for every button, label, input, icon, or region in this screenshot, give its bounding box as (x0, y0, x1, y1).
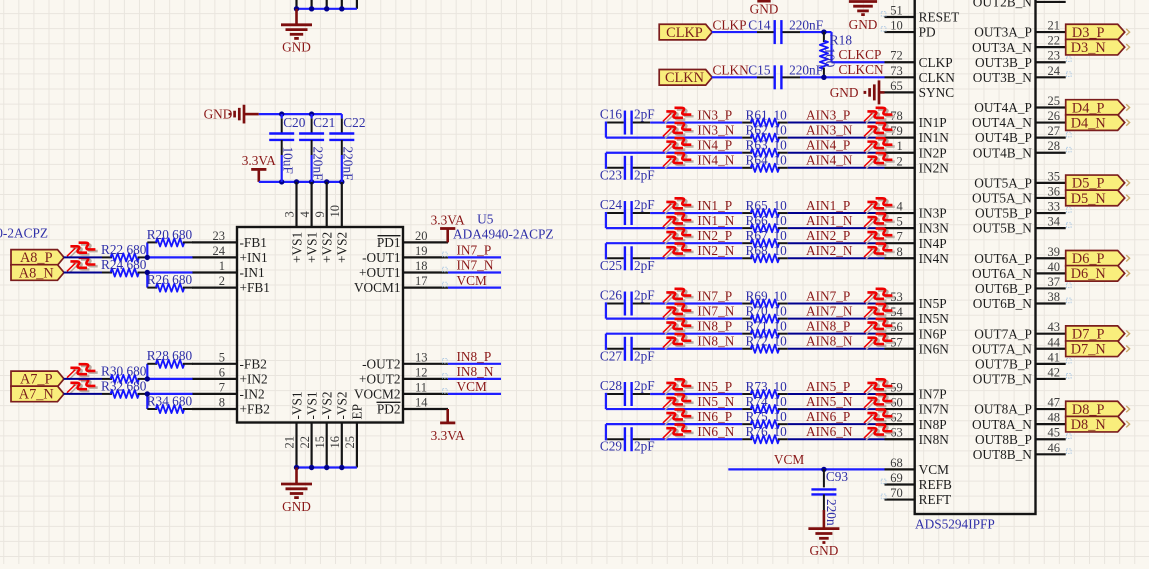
wire (146, 394, 148, 409)
svg-text:2pF: 2pF (634, 107, 655, 122)
svg-text:C25: C25 (600, 258, 623, 273)
junction (339, 179, 344, 184)
svg-text:-VS1: -VS1 (289, 391, 304, 419)
wire (448, 271, 501, 273)
svg-text:D7_N: D7_N (1071, 342, 1106, 358)
wire (788, 122, 885, 124)
svg-text:10: 10 (774, 409, 788, 424)
ADC pin 51 RESET (885, 4, 960, 25)
svg-text:AIN2_N: AIN2_N (806, 243, 853, 258)
port A7_P (11, 371, 64, 387)
ADC pin 56 IN6P (885, 320, 947, 341)
svg-text:+VS2: +VS2 (335, 232, 350, 263)
junction (145, 270, 150, 275)
svg-text:GND: GND (849, 17, 878, 32)
junction (309, 465, 314, 470)
junction (145, 255, 150, 260)
svg-text:9: 9 (313, 211, 327, 217)
ADC pin 46 OUT8B_N (973, 441, 1066, 462)
ADC U? ADS5294IPFP body (915, 0, 1036, 514)
svg-text:10: 10 (774, 122, 788, 137)
svg-text:ADA4940-2ACPZ: ADA4940-2ACPZ (453, 227, 553, 242)
port D3_P (1066, 24, 1125, 40)
wire (606, 152, 742, 154)
svg-text:27: 27 (1048, 124, 1061, 138)
junction (324, 6, 329, 11)
ADC pin 62 IN8P (885, 411, 947, 432)
junction (309, 179, 314, 184)
capacitor C25 2pF (600, 243, 655, 273)
svg-text:C22: C22 (343, 115, 365, 130)
resistor R64 10 (742, 153, 788, 172)
svg-text:C20: C20 (283, 115, 306, 130)
svg-text:R32 680: R32 680 (101, 378, 147, 393)
port D4_N (1066, 115, 1125, 131)
svg-text:10: 10 (774, 243, 788, 258)
ADC pin 22 OUT3A_N (972, 34, 1066, 55)
ADC pin 43 OUT7A_P (974, 320, 1065, 341)
ground GND (sideways) (244, 113, 259, 116)
ADC pin 65 SYNC (885, 79, 955, 100)
ADC pin 57 IN6N (885, 335, 950, 356)
U5 pin 16 -VS2 (328, 391, 350, 467)
svg-text:IN8N: IN8N (919, 432, 950, 447)
svg-text:10uF: 10uF (281, 147, 296, 174)
svg-text:IN7_N: IN7_N (457, 258, 494, 273)
svg-text:OUT4A_P: OUT4A_P (974, 100, 1032, 115)
svg-text:22: 22 (298, 436, 312, 449)
wire (297, 466, 357, 468)
svg-text:68: 68 (890, 456, 903, 470)
svg-text:AIN3_P: AIN3_P (806, 107, 850, 122)
ADC pin 78 IN1P (885, 109, 947, 130)
svg-text:R26 680: R26 680 (147, 272, 193, 287)
diff pair marker (663, 409, 694, 424)
svg-text:51: 51 (890, 4, 903, 18)
svg-text:R65: R65 (746, 198, 769, 213)
port D5_P (1066, 175, 1125, 191)
svg-text:IN2_N: IN2_N (697, 243, 734, 258)
svg-text:IN7P: IN7P (919, 387, 947, 402)
svg-text:+FB2: +FB2 (240, 402, 270, 417)
svg-text:OUT8A_P: OUT8A_P (974, 402, 1032, 417)
svg-text:40: 40 (1048, 260, 1061, 274)
svg-text:69: 69 (890, 471, 903, 485)
wire (606, 423, 742, 425)
svg-text:CLKN: CLKN (919, 70, 956, 85)
ADC pin 63 IN8N (885, 426, 950, 447)
wire (788, 212, 885, 214)
svg-text:10: 10 (774, 288, 788, 303)
svg-text:C16: C16 (600, 107, 623, 122)
diff pair marker (663, 379, 694, 394)
svg-text:10: 10 (774, 379, 788, 394)
svg-text:-VS2: -VS2 (335, 391, 350, 419)
svg-text:2pF: 2pF (634, 258, 655, 273)
svg-text:46: 46 (1048, 441, 1061, 455)
power 3.3VA (446, 229, 449, 243)
wire (146, 364, 148, 379)
svg-text:D6_P: D6_P (1072, 251, 1105, 267)
wire (650, 167, 742, 169)
diff pair marker (663, 394, 694, 409)
diff pair marker (67, 379, 98, 394)
svg-text:GND: GND (282, 499, 311, 514)
svg-text:OUT4B_N: OUT4B_N (973, 145, 1032, 160)
svg-text:C93: C93 (826, 469, 849, 484)
U5 pin 13 -OUT2 (362, 350, 448, 371)
svg-text:GND: GND (809, 543, 838, 558)
port D7_P (1066, 326, 1125, 342)
svg-text:3: 3 (283, 211, 297, 217)
svg-text:D7_P: D7_P (1072, 326, 1105, 342)
diff pair marker (864, 394, 895, 409)
diff pair marker (663, 198, 694, 213)
svg-text:41: 41 (1048, 350, 1061, 364)
svg-text:1: 1 (219, 259, 225, 273)
resistor R20 680 (147, 227, 193, 247)
svg-text:8: 8 (219, 396, 225, 410)
svg-text:R75: R75 (746, 409, 769, 424)
ground GND (295, 468, 298, 484)
svg-text:73: 73 (890, 64, 903, 78)
svg-text:C15: C15 (748, 63, 771, 78)
diff pair marker (67, 258, 98, 273)
wire (650, 121, 742, 123)
svg-text:IN6_N: IN6_N (697, 424, 734, 439)
svg-text:D5_N: D5_N (1071, 191, 1106, 207)
svg-text:OUT8A_N: OUT8A_N (972, 417, 1032, 432)
svg-text:5: 5 (219, 350, 225, 364)
svg-text:43: 43 (1048, 320, 1061, 334)
svg-text:AIN5_N: AIN5_N (806, 394, 853, 409)
svg-text:28: 28 (1048, 139, 1061, 153)
svg-text:35: 35 (1048, 169, 1061, 183)
ADC pin 26 OUT4A_N (972, 109, 1066, 130)
ADC pin 24 OUT3B_N (973, 64, 1066, 85)
svg-text:R20 680: R20 680 (147, 227, 193, 242)
svg-text:AIN2_P: AIN2_P (806, 228, 850, 243)
resistor R68 10 (742, 243, 788, 262)
wire (788, 333, 885, 335)
wire (606, 408, 742, 410)
svg-text:R73: R73 (746, 379, 769, 394)
svg-text:25: 25 (1048, 94, 1061, 108)
ADC pin 37 OUT6B_P (975, 275, 1066, 296)
svg-text:A7_N: A7_N (19, 387, 54, 403)
resistor R32 680 (101, 378, 148, 398)
svg-text:IN3N: IN3N (919, 221, 950, 236)
ADC pin 40 OUT6A_N (972, 260, 1066, 281)
diff pair marker (864, 425, 895, 440)
svg-text:-OUT2: -OUT2 (362, 356, 400, 371)
svg-text:21: 21 (283, 436, 297, 449)
svg-text:36: 36 (1048, 184, 1061, 198)
capacitor C26 2pF (600, 288, 655, 319)
wire (606, 242, 742, 244)
svg-text:IN5_P: IN5_P (697, 379, 732, 394)
ADC pin 4 IN3P (885, 200, 947, 221)
diff pair marker (864, 123, 895, 138)
ADC pin 39 OUT6A_P (974, 245, 1065, 266)
ADC pin 27 OUT4B_P (975, 124, 1066, 145)
ADC pin 34 OUT5B_N (973, 215, 1066, 236)
resistor R65 10 (742, 198, 788, 217)
svg-text:AIN1_N: AIN1_N (806, 213, 853, 228)
svg-text:R30 680: R30 680 (101, 363, 147, 378)
ADC pin 73 CLKN (885, 64, 956, 85)
svg-text:10: 10 (774, 213, 788, 228)
resistor R30 680 (101, 363, 148, 383)
diff pair marker (663, 123, 694, 138)
svg-text:R74: R74 (746, 394, 769, 409)
wire (64, 272, 103, 274)
port D8_P (1066, 401, 1125, 417)
junction (294, 179, 299, 184)
port A7_N (11, 386, 64, 402)
U5 pin 21 -VS1 (283, 391, 305, 467)
svg-text:2: 2 (219, 274, 225, 288)
wire (650, 212, 742, 214)
svg-text:25: 25 (343, 436, 357, 449)
svg-text:OUT6B_N: OUT6B_N (973, 296, 1032, 311)
U5 pin 18 +OUT1 (359, 259, 448, 280)
svg-text:R72: R72 (746, 334, 768, 349)
wire (650, 257, 742, 259)
ADC pin 23 OUT3B_P (975, 49, 1066, 70)
capacitor C27 2pF (600, 334, 655, 364)
svg-text:8: 8 (896, 245, 902, 259)
svg-text:ADA4940-2ACPZ: ADA4940-2ACPZ (0, 225, 48, 240)
wire (146, 273, 148, 288)
svg-text:A8_N: A8_N (19, 265, 54, 281)
svg-text:R64: R64 (746, 153, 769, 168)
ADC pin 79 IN1N (885, 124, 950, 145)
wire (832, 61, 885, 63)
svg-text:24: 24 (1048, 64, 1061, 78)
U5 pin 22 -VS1 (298, 391, 320, 467)
diff pair marker (864, 229, 895, 244)
wire (259, 181, 342, 183)
diff pair marker (864, 289, 895, 304)
U5 pin 17 VOCM1 (354, 274, 448, 295)
svg-text:4: 4 (896, 200, 903, 214)
svg-text:REFT: REFT (919, 492, 952, 507)
diff pair marker (663, 334, 694, 349)
svg-text:2pF: 2pF (634, 378, 655, 393)
svg-text:R71: R71 (746, 318, 768, 333)
svg-text:IN4_P: IN4_P (697, 138, 732, 153)
svg-text:AIN4_N: AIN4_N (806, 153, 853, 168)
svg-text:3.3VA: 3.3VA (242, 153, 277, 168)
svg-text:-IN2: -IN2 (240, 387, 265, 402)
svg-text:C23: C23 (600, 167, 623, 182)
svg-text:23: 23 (213, 229, 226, 243)
wire (448, 378, 501, 380)
port CLKN (659, 70, 712, 86)
junction (279, 111, 284, 116)
svg-text:2pF: 2pF (634, 197, 655, 212)
resistor R22 680 (101, 242, 148, 262)
svg-text:R76: R76 (746, 424, 769, 439)
ADC pin 38 OUT6B_N (973, 290, 1066, 311)
diff pair marker (864, 138, 895, 153)
svg-text:2pF: 2pF (634, 288, 655, 303)
U5 pin 24 +IN1 (192, 244, 268, 265)
svg-text:C29: C29 (600, 439, 623, 454)
wire (147, 393, 192, 395)
resistor R73 10 (742, 379, 788, 398)
U5 pin 4 +VS1 (298, 182, 320, 263)
wire (800, 31, 832, 33)
svg-text:IN1P: IN1P (919, 115, 947, 130)
wire (788, 167, 885, 169)
svg-text:D3_P: D3_P (1072, 25, 1105, 41)
svg-text:10: 10 (774, 318, 788, 333)
resistor R61 10 (742, 107, 788, 126)
ADC pin 68 VCM (885, 456, 950, 477)
svg-text:+VS1: +VS1 (289, 232, 304, 263)
svg-text:CLKP: CLKP (666, 25, 703, 41)
svg-text:D8_N: D8_N (1071, 417, 1106, 433)
svg-text:D5_P: D5_P (1072, 176, 1105, 192)
diff pair marker (864, 198, 895, 213)
svg-text:3.3VA: 3.3VA (431, 428, 466, 443)
svg-text:+VS1: +VS1 (304, 232, 319, 263)
U5 pin 2 +FB1 (192, 274, 270, 295)
svg-text:38: 38 (1048, 290, 1061, 304)
ADC pin 54 IN5N (885, 305, 950, 326)
svg-text:5: 5 (896, 215, 902, 229)
wire (788, 438, 885, 440)
svg-text:OUT3A_P: OUT3A_P (974, 25, 1032, 40)
svg-text:PD2: PD2 (377, 402, 401, 417)
svg-text:CLKCN: CLKCN (839, 62, 884, 77)
svg-text:-FB1: -FB1 (240, 235, 267, 250)
diff pair marker (864, 153, 895, 168)
wire (259, 113, 342, 115)
ADC pin 42 OUT7B_N (973, 365, 1066, 386)
svg-text:2pF: 2pF (634, 439, 655, 454)
ADC pin 60 IN7N (885, 396, 950, 417)
diff pair marker (67, 364, 98, 379)
diff pair marker (663, 153, 694, 168)
svg-text:4: 4 (298, 211, 312, 218)
svg-text:C21: C21 (313, 115, 335, 130)
diff pair marker (864, 213, 895, 228)
svg-text:IN7_P: IN7_P (457, 243, 492, 258)
svg-text:+FB1: +FB1 (240, 280, 270, 295)
ADC pin 10 PD (885, 19, 936, 40)
wire (650, 302, 742, 304)
svg-text:RESET: RESET (919, 10, 960, 25)
junction (309, 6, 314, 11)
port D6_N (1066, 266, 1125, 282)
svg-text:IN1_N: IN1_N (697, 213, 734, 228)
resistor R24 680 (101, 257, 148, 277)
wire (788, 303, 885, 305)
svg-text:IN5N: IN5N (919, 311, 950, 326)
port D8_N (1066, 416, 1125, 432)
diff pair marker (663, 138, 694, 153)
capacitor C28 2pF (600, 378, 655, 409)
resistor R75 10 (742, 409, 788, 428)
svg-text:OUT7A_P: OUT7A_P (974, 326, 1032, 341)
svg-text:220nF: 220nF (789, 63, 823, 78)
ground GND (sideways at SYNC) (879, 91, 885, 94)
capacitor C22 220nF (329, 114, 365, 182)
diff pair marker (864, 244, 895, 259)
diff pair marker (663, 213, 694, 228)
resistor R76 10 (742, 424, 788, 443)
svg-text:20: 20 (415, 229, 428, 243)
svg-text:CLKN: CLKN (713, 63, 750, 78)
svg-text:C14: C14 (748, 17, 771, 32)
ADC pin 2 IN2N (885, 154, 950, 175)
U5 pin 7 -IN2 (192, 380, 265, 401)
resistor R74 10 (742, 394, 788, 413)
svg-text:IN3P: IN3P (919, 206, 947, 221)
svg-text:34: 34 (1048, 215, 1061, 229)
port D7_N (1066, 341, 1125, 357)
junction (821, 467, 826, 472)
port D6_P (1066, 250, 1125, 266)
svg-text:OUT3A_N: OUT3A_N (972, 40, 1032, 55)
svg-text:10: 10 (890, 19, 903, 33)
U5 pin 11 VOCM2 (354, 380, 448, 401)
svg-text:10: 10 (774, 107, 788, 122)
wire (788, 227, 885, 229)
op-amp U5 ADA4940-2ACPZ body (237, 227, 403, 423)
diff pair marker (864, 304, 895, 319)
svg-text:OUT7A_N: OUT7A_N (972, 341, 1032, 356)
resistor R72 10 (742, 334, 788, 353)
svg-text:C24: C24 (600, 197, 623, 212)
svg-text:IN7_P: IN7_P (697, 288, 732, 303)
svg-text:IN6_P: IN6_P (697, 409, 732, 424)
resistor R67 10 (742, 228, 788, 247)
port A8_N (11, 265, 64, 281)
svg-text:IN3_P: IN3_P (697, 107, 732, 122)
capacitor C21 220nF (299, 114, 335, 182)
svg-text:PD: PD (919, 25, 936, 40)
wire (297, 8, 357, 10)
wire (800, 76, 885, 78)
svg-text:R67: R67 (746, 228, 769, 243)
ADC pin 1 IN2P (885, 139, 947, 160)
wire (606, 137, 742, 139)
U5 pin 5 -FB2 (192, 350, 267, 371)
svg-text:IN1N: IN1N (919, 130, 950, 145)
svg-text:EP: EP (350, 404, 365, 420)
svg-text:37: 37 (1048, 275, 1061, 289)
svg-text:47: 47 (1048, 396, 1061, 410)
ADC pin 41 OUT7B_P (975, 350, 1066, 371)
svg-text:-IN1: -IN1 (240, 265, 265, 280)
svg-text:IN2N: IN2N (919, 160, 950, 175)
diff pair marker (67, 243, 98, 258)
wire (788, 137, 885, 139)
svg-text:IN2P: IN2P (919, 145, 947, 160)
svg-text:+VS2: +VS2 (320, 232, 335, 263)
svg-text:7: 7 (896, 230, 902, 244)
svg-text:D6_N: D6_N (1071, 266, 1106, 282)
diff pair marker (663, 425, 694, 440)
wire (606, 318, 742, 320)
svg-text:OUT4A_N: OUT4A_N (972, 115, 1032, 130)
svg-text:AIN1_P: AIN1_P (806, 198, 850, 213)
svg-text:220nF: 220nF (789, 17, 823, 32)
